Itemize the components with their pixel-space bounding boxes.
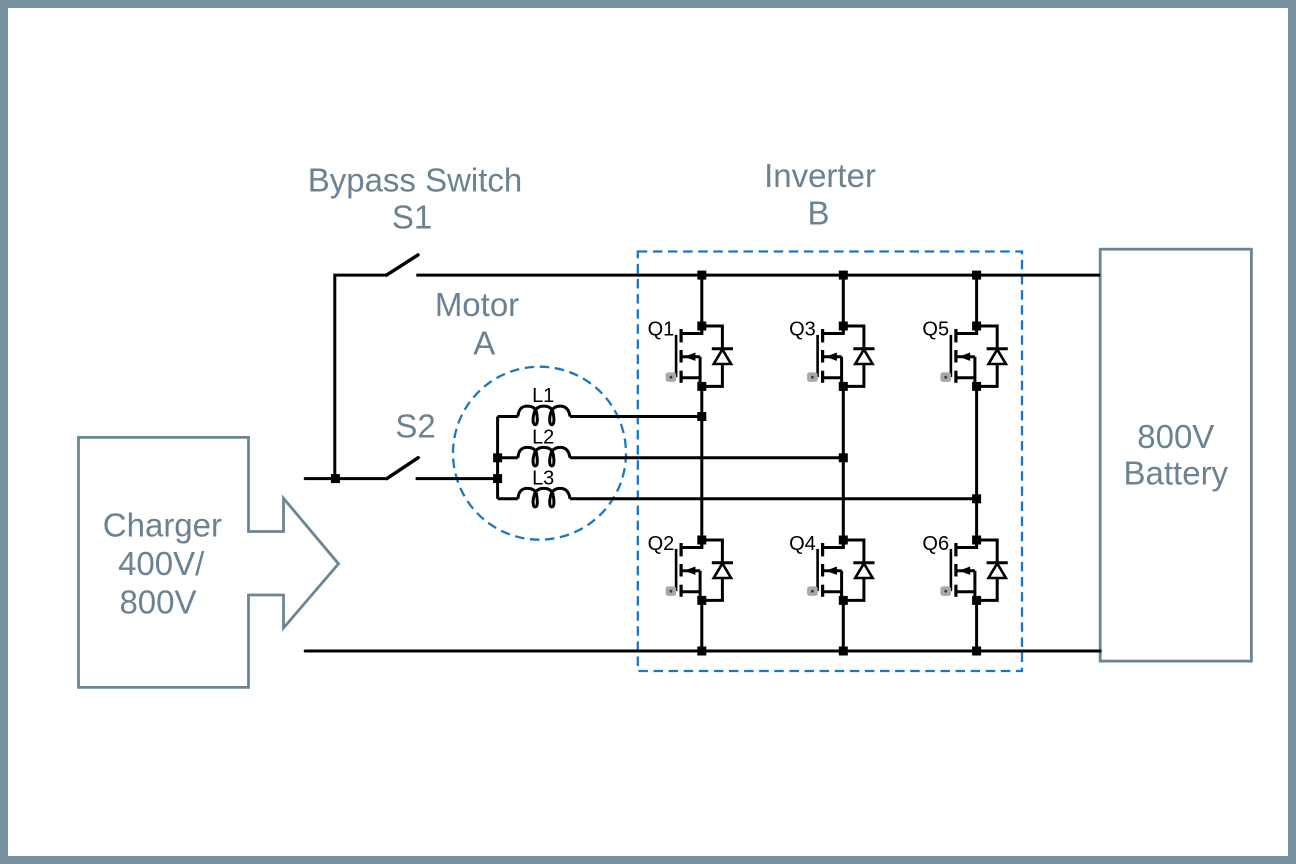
node bottom rail leg2 bbox=[839, 647, 848, 656]
node top rail leg3 bbox=[972, 271, 981, 280]
svg-text:S2: S2 bbox=[395, 408, 435, 445]
wire leg 3 bbox=[975, 275, 978, 333]
svg-text:A: A bbox=[473, 325, 495, 362]
node bar-L2 bbox=[493, 453, 502, 462]
inductor L3 bbox=[498, 497, 518, 500]
transistor Q6 bbox=[940, 536, 1007, 605]
transistor Q3 bbox=[807, 322, 874, 391]
wire top rail bbox=[416, 274, 1100, 277]
node bottom rail leg1 bbox=[697, 647, 706, 656]
svg-text:Charger: Charger bbox=[103, 506, 222, 543]
svg-text:Q2: Q2 bbox=[648, 533, 675, 555]
inductor L1 bbox=[498, 415, 518, 418]
transistor Q2 bbox=[666, 536, 733, 605]
svg-text:Inverter: Inverter bbox=[764, 157, 876, 194]
transistor Q4 bbox=[807, 536, 874, 605]
svg-text:L2: L2 bbox=[532, 426, 554, 448]
switch S1 blade bbox=[387, 255, 418, 275]
wire bottom rail bbox=[305, 650, 1100, 653]
svg-text:Motor: Motor bbox=[435, 286, 519, 323]
inductor L2 bbox=[498, 456, 518, 459]
svg-text:800V: 800V bbox=[119, 584, 196, 621]
svg-text:Battery: Battery bbox=[1124, 455, 1229, 492]
svg-text:Q4: Q4 bbox=[789, 533, 816, 555]
node top rail leg1 bbox=[697, 271, 706, 280]
wire S2 right bbox=[416, 477, 498, 480]
transistor Q5 bbox=[940, 322, 1007, 391]
node phase leg2 bbox=[839, 453, 848, 462]
wire motor bus bar bbox=[496, 417, 499, 499]
node bar-S2 bbox=[493, 474, 502, 483]
svg-text:Q1: Q1 bbox=[648, 318, 675, 340]
wire S1 left bbox=[335, 275, 387, 479]
battery box bbox=[1100, 249, 1251, 661]
svg-text:800V: 800V bbox=[1137, 418, 1214, 455]
svg-text:L3: L3 bbox=[532, 467, 554, 489]
svg-text:L1: L1 bbox=[532, 385, 554, 407]
node top rail leg2 bbox=[839, 271, 848, 280]
svg-text:Q6: Q6 bbox=[922, 533, 949, 555]
wire leg 2 bbox=[842, 275, 845, 333]
node phase leg3 bbox=[972, 494, 981, 503]
svg-text:S1: S1 bbox=[392, 199, 432, 236]
wire leg 1 bbox=[700, 275, 703, 333]
inverter dashed box B bbox=[638, 252, 1022, 672]
transistor Q1 bbox=[666, 322, 733, 391]
motor dashed circle A bbox=[453, 367, 626, 540]
wire S2 left bbox=[305, 477, 387, 480]
svg-text:B: B bbox=[807, 194, 829, 231]
node phase leg1 bbox=[697, 412, 706, 421]
node S2 junction bbox=[331, 474, 340, 483]
svg-text:Q3: Q3 bbox=[789, 318, 816, 340]
switch S2 blade bbox=[387, 458, 418, 479]
svg-text:Bypass Switch: Bypass Switch bbox=[308, 162, 523, 199]
node bottom rail leg3 bbox=[972, 647, 981, 656]
charger box with block arrow bbox=[79, 437, 339, 687]
svg-text:400V/: 400V/ bbox=[118, 545, 205, 582]
svg-text:Q5: Q5 bbox=[922, 318, 949, 340]
